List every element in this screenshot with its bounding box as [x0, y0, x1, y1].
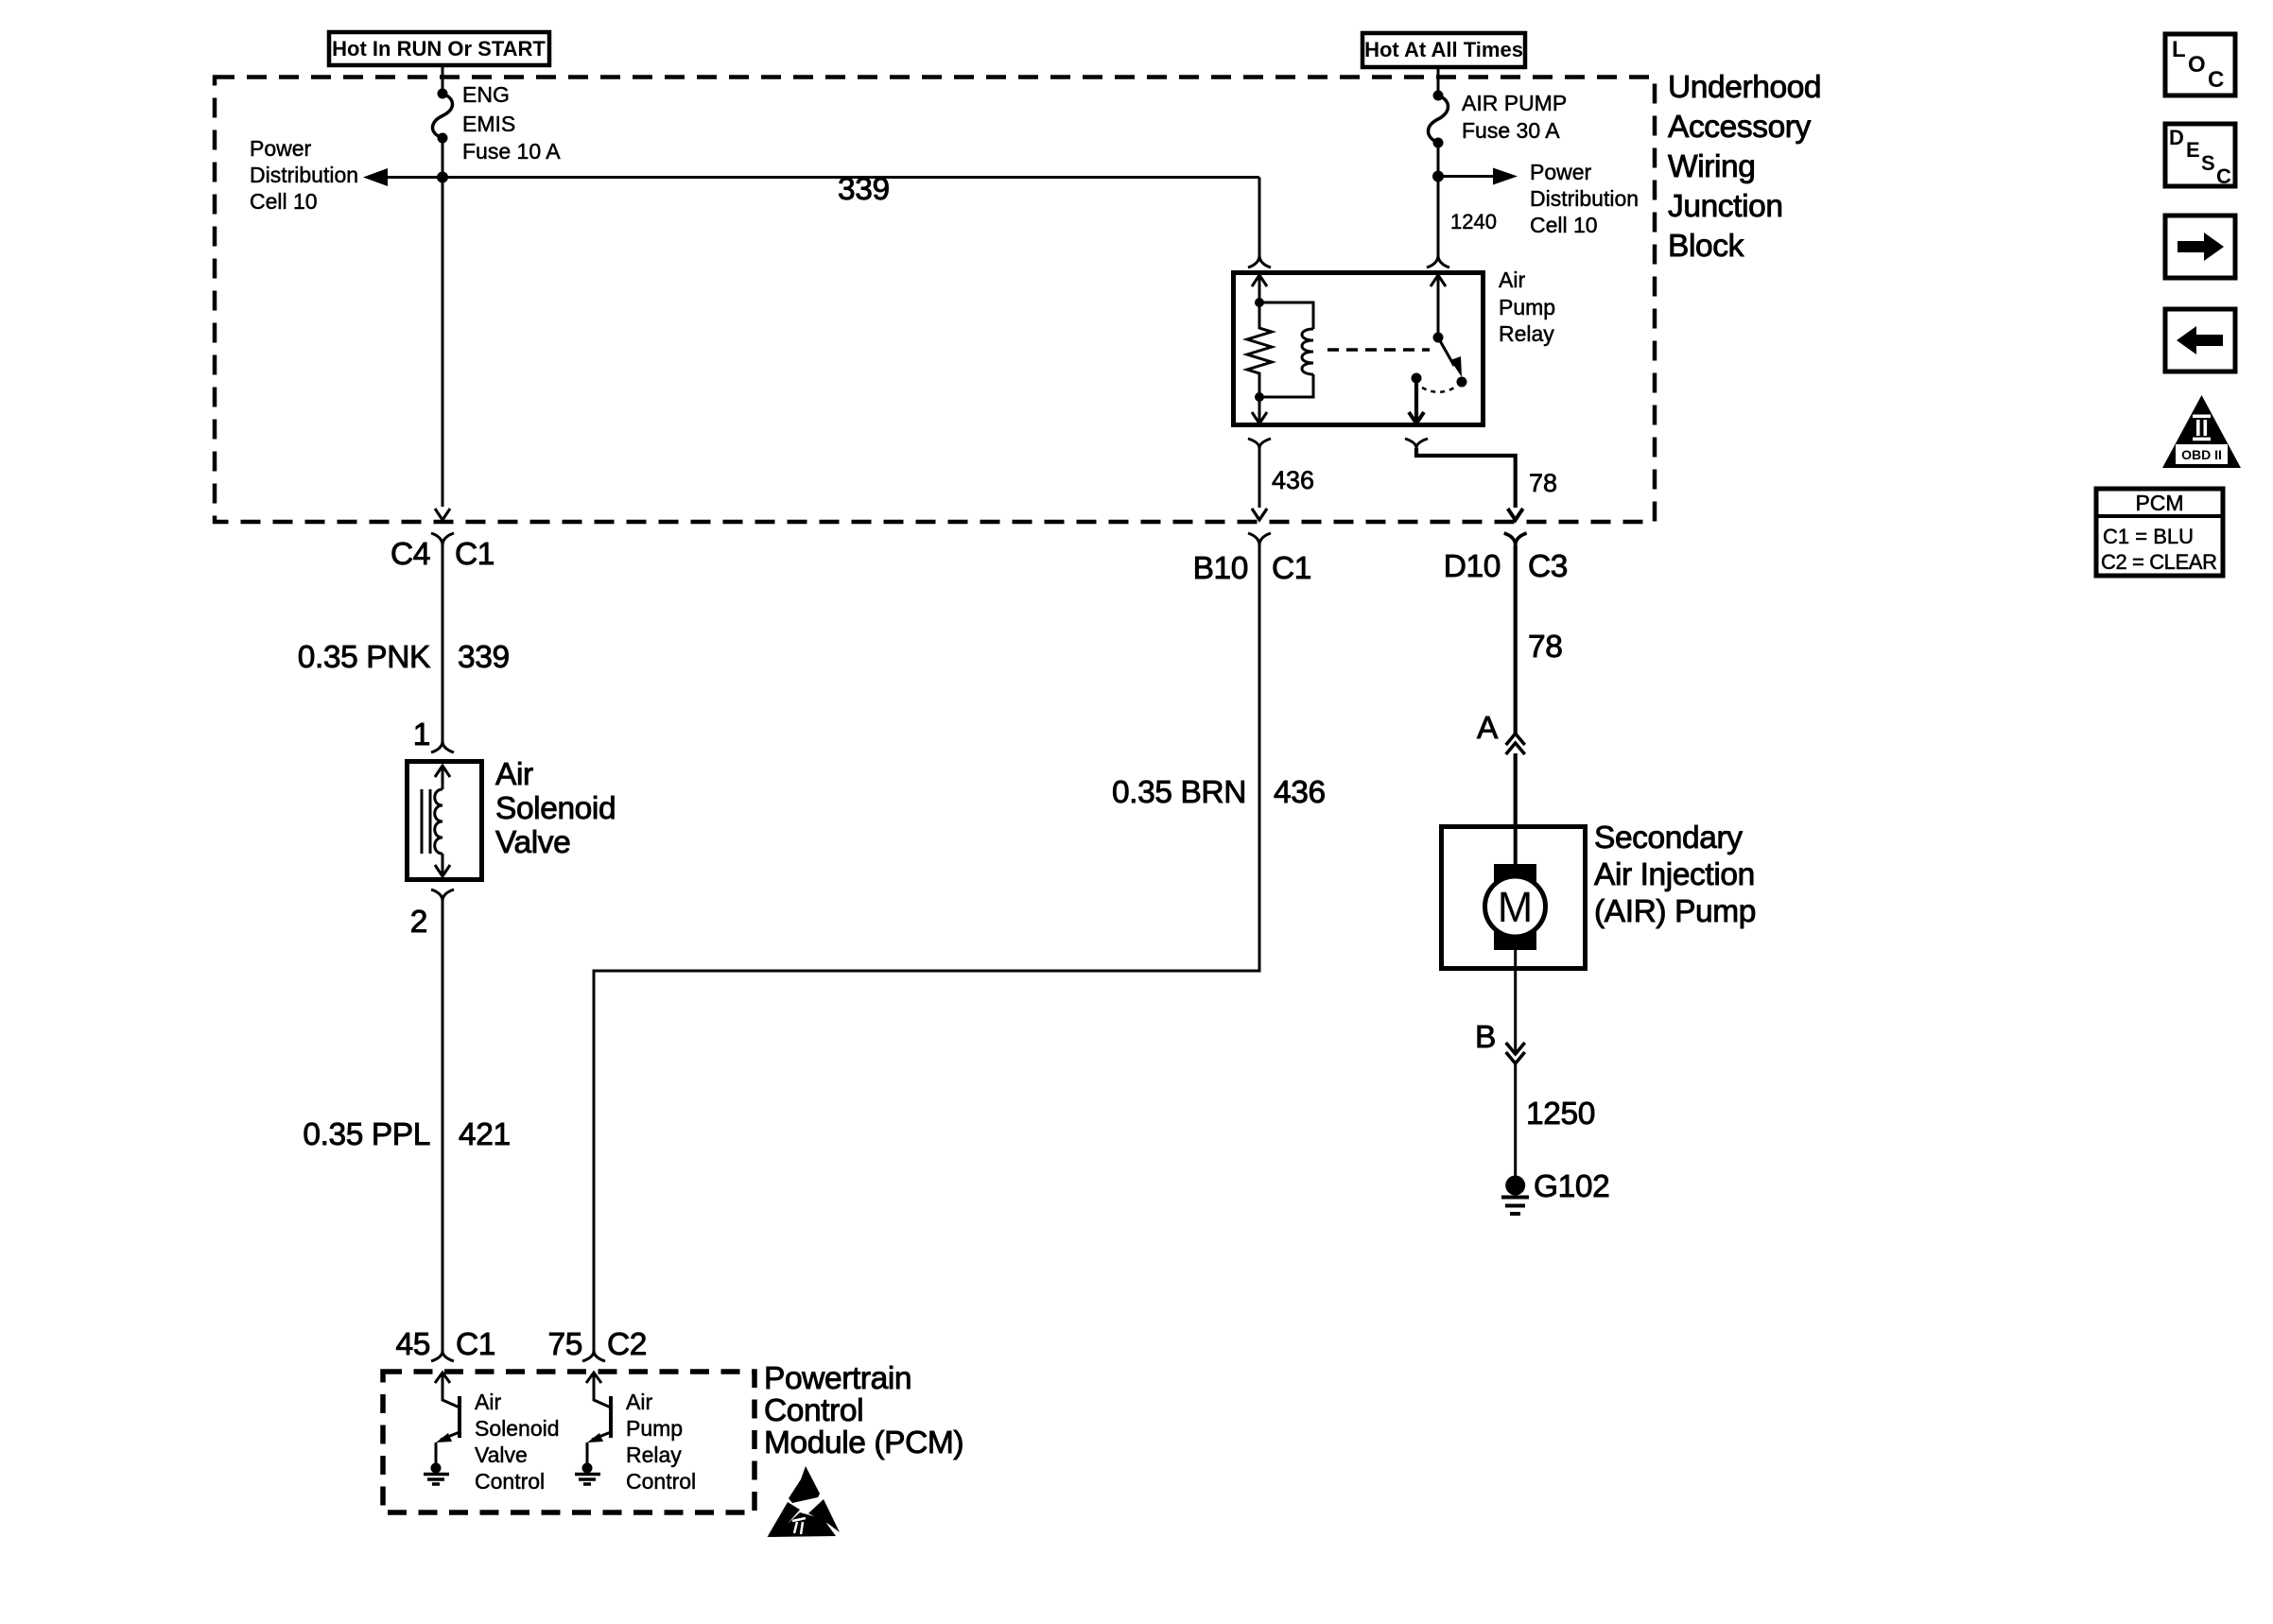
- svg-text:G102: G102: [1534, 1169, 1609, 1204]
- svg-text:Solenoid: Solenoid: [475, 1416, 560, 1441]
- label 0.35 PNK 339: [298, 640, 510, 675]
- svg-text:1250: 1250: [1526, 1097, 1595, 1132]
- arrow to Power Distribution Cell 10 (right): [1438, 168, 1518, 185]
- svg-text:Pump: Pump: [1499, 295, 1555, 320]
- svg-text:C1: C1: [456, 1327, 495, 1362]
- relay box Air Pump Relay: [1234, 273, 1484, 425]
- svg-text:Module (PCM): Module (PCM): [764, 1425, 963, 1460]
- svg-text:C: C: [2208, 67, 2224, 93]
- svg-text:Relay: Relay: [626, 1443, 682, 1467]
- icon arrow left box: [2165, 309, 2235, 371]
- ground at PCM driver 2: [575, 1463, 600, 1485]
- solenoid coil symbol: [422, 766, 450, 876]
- label Power Distribution Cell 10 (left): [250, 136, 358, 214]
- wire 436 from relay to junction block edge: [1248, 439, 1271, 520]
- svg-text:S: S: [2201, 151, 2215, 175]
- svg-text:Cell 10: Cell 10: [250, 189, 318, 214]
- svg-text:78: 78: [1529, 469, 1557, 497]
- svg-text:Air: Air: [475, 1390, 501, 1414]
- label Powertrain Control Module (PCM): [764, 1361, 963, 1460]
- driver Air Pump Relay Control (transistor-style output driver): [586, 1373, 611, 1465]
- connector B (inline): [1475, 1020, 1525, 1063]
- svg-text:Control: Control: [626, 1469, 696, 1494]
- svg-text:OBD II: OBD II: [2181, 447, 2222, 462]
- svg-text:C1: C1: [455, 537, 495, 572]
- connector C4 / C1: [390, 509, 495, 572]
- svg-text:B: B: [1475, 1020, 1496, 1055]
- fuse ENG EMIS Fuse 10 A: [433, 89, 453, 144]
- svg-text:Distribution: Distribution: [250, 163, 358, 187]
- svg-text:Underhood: Underhood: [1668, 70, 1821, 105]
- svg-text:Hot At All Times: Hot At All Times: [1364, 38, 1523, 61]
- solenoid valve box: [408, 762, 482, 880]
- svg-text:78: 78: [1528, 630, 1562, 665]
- label 1250: [1526, 1097, 1595, 1132]
- svg-text:C3: C3: [1528, 549, 1568, 584]
- svg-text:PCM: PCM: [2135, 491, 2183, 515]
- svg-text:Fuse 30 A: Fuse 30 A: [1462, 118, 1560, 143]
- relay dashed actuation link: [1327, 348, 1430, 352]
- icon LOC box: [2165, 34, 2235, 95]
- relay resistor: [1247, 302, 1272, 397]
- icon DESC box: [2165, 124, 2235, 188]
- label 339: [838, 172, 890, 207]
- svg-text:Air: Air: [495, 757, 533, 792]
- label Air Pump Relay Control: [626, 1390, 696, 1494]
- connector D10 / C3: [1444, 533, 1568, 584]
- junction node 1240: [1432, 171, 1444, 182]
- ground G102: [1501, 1176, 1529, 1215]
- PCM dashed box: [383, 1372, 755, 1512]
- svg-text:Fuse 10 A: Fuse 10 A: [462, 139, 561, 164]
- connector chevron into relay coil pin: [1248, 255, 1271, 268]
- wire 339 horizontal: [442, 176, 1259, 179]
- connector B10 / C1: [1193, 509, 1311, 586]
- label Air Solenoid Valve: [495, 757, 616, 860]
- label 0.35 PPL 421: [303, 1117, 510, 1152]
- relay switch: [1409, 275, 1467, 423]
- svg-text:1240: 1240: [1450, 210, 1497, 233]
- svg-text:O: O: [2188, 52, 2206, 78]
- svg-text:75: 75: [548, 1327, 582, 1362]
- wire 339 vertical down to relay coil pin: [1258, 178, 1261, 256]
- svg-text:Air: Air: [626, 1390, 652, 1414]
- svg-text:A: A: [1477, 711, 1499, 746]
- svg-text:Control: Control: [475, 1469, 545, 1494]
- label Secondary Air Injection (AIR) Pump: [1594, 821, 1756, 929]
- ESD warning symbol: [767, 1466, 840, 1537]
- svg-text:B10: B10: [1193, 551, 1248, 586]
- svg-text:Wiring: Wiring: [1668, 149, 1756, 184]
- connector chevron into relay switch pin: [1427, 255, 1449, 268]
- svg-text:Accessory: Accessory: [1668, 110, 1812, 145]
- icon OBD II triangle: [2162, 395, 2241, 468]
- svg-text:Solenoid: Solenoid: [495, 791, 616, 826]
- relay coil pin bottom arrow (down): [1252, 397, 1267, 423]
- svg-text:0.35 PNK: 0.35 PNK: [298, 640, 430, 675]
- svg-text:Distribution: Distribution: [1530, 186, 1639, 211]
- icon arrow right box: [2165, 216, 2235, 278]
- svg-text:AIR PUMP: AIR PUMP: [1462, 91, 1567, 115]
- wire from Hot In RUN header into ENG EMIS fuse: [442, 65, 444, 93]
- pin 1 connector of solenoid valve: [413, 717, 454, 752]
- svg-text:421: 421: [459, 1117, 511, 1152]
- header box Hot In RUN Or START: [329, 32, 549, 65]
- arrow to Power Distribution Cell 10 (left): [363, 168, 442, 186]
- svg-text:Block: Block: [1668, 229, 1744, 264]
- svg-text:Power: Power: [1530, 160, 1592, 184]
- wire 421 down to PCM pin 45: [442, 901, 444, 1351]
- svg-text:Air: Air: [1499, 268, 1525, 292]
- wire 78 down to AIR pump: [1514, 545, 1518, 824]
- svg-text:339: 339: [458, 640, 510, 675]
- svg-text:Valve: Valve: [495, 825, 570, 860]
- label 78: [1528, 630, 1562, 665]
- connector 45 / C1 at PCM: [396, 1327, 496, 1362]
- svg-text:0.35 PPL: 0.35 PPL: [303, 1117, 430, 1152]
- svg-text:Cell 10: Cell 10: [1530, 213, 1598, 237]
- label 78 inside junction block: [1529, 469, 1557, 497]
- label 436 inside junction block: [1272, 466, 1314, 494]
- svg-text:Secondary: Secondary: [1594, 821, 1743, 855]
- header box Hot At All Times: [1362, 33, 1525, 67]
- connector 75 / C2 at PCM: [548, 1327, 648, 1362]
- label Air Pump Relay: [1499, 268, 1555, 346]
- svg-text:436: 436: [1272, 466, 1314, 494]
- svg-text:EMIS: EMIS: [462, 112, 515, 136]
- relay coil pin arrow (up) and upper node: [1252, 275, 1267, 312]
- svg-text:(AIR) Pump: (AIR) Pump: [1594, 894, 1756, 929]
- label Power Distribution Cell 10 (right): [1530, 160, 1639, 237]
- label Underhood Accessory Wiring Junction Block: [1668, 70, 1821, 264]
- svg-text:Power: Power: [250, 136, 312, 161]
- relay coil branch: [1255, 302, 1313, 402]
- label 1240: [1450, 210, 1497, 233]
- svg-text:Pump: Pump: [626, 1416, 683, 1441]
- svg-text:Hot In RUN Or START: Hot In RUN Or START: [332, 37, 546, 60]
- svg-text:Powertrain: Powertrain: [764, 1361, 911, 1396]
- svg-text:436: 436: [1274, 775, 1326, 810]
- svg-text:C1: C1: [1272, 551, 1311, 586]
- svg-text:Control: Control: [764, 1393, 863, 1428]
- label 0.35 BRN 436: [1112, 775, 1326, 810]
- svg-text:1: 1: [413, 717, 430, 752]
- wire 1250 to ground: [1514, 969, 1517, 1176]
- svg-text:C2 = CLEAR: C2 = CLEAR: [2101, 550, 2217, 574]
- svg-text:2: 2: [410, 905, 427, 940]
- wire 339 PNK below junction block: [442, 545, 444, 741]
- pump box Secondary Air Injection (AIR) Pump: [1442, 827, 1586, 969]
- driver Air Solenoid Valve Control (transistor-style output driver): [435, 1373, 460, 1465]
- svg-text:Air Injection: Air Injection: [1594, 857, 1755, 892]
- connector A (inline): [1477, 711, 1525, 754]
- svg-text:C: C: [2216, 164, 2231, 188]
- wire fuse output down through junction node: [442, 138, 444, 507]
- fuse AIR PUMP Fuse 30 A: [1429, 91, 1449, 148]
- svg-text:ENG: ENG: [462, 82, 510, 107]
- junction block dashed box (Underhood Accessory Wiring Junction Block): [215, 78, 1655, 523]
- svg-text:339: 339: [838, 172, 890, 207]
- svg-text:D: D: [2169, 126, 2184, 149]
- wire from Hot At All Times header into AIR PUMP fuse: [1437, 67, 1440, 95]
- pin 2 connector of solenoid valve: [410, 890, 454, 940]
- label AIR PUMP Fuse 30 A: [1462, 91, 1567, 143]
- svg-text:0.35 BRN: 0.35 BRN: [1112, 775, 1246, 810]
- label G102: [1534, 1169, 1609, 1204]
- svg-text:C2: C2: [607, 1327, 647, 1362]
- svg-text:M: M: [1498, 883, 1534, 931]
- PCM connector legend table: [2096, 489, 2223, 576]
- wire 78 from relay to junction block edge: [1405, 439, 1523, 520]
- junction node at left fuse output: [437, 172, 448, 183]
- label Air Solenoid Valve Control: [475, 1390, 560, 1494]
- svg-text:C1 = BLU: C1 = BLU: [2103, 525, 2194, 548]
- svg-text:D10: D10: [1444, 549, 1501, 584]
- ground at PCM driver 1: [424, 1463, 449, 1485]
- svg-text:C4: C4: [390, 537, 430, 572]
- svg-text:45: 45: [396, 1327, 430, 1362]
- wire 436 BRN down and over to PCM pin 75: [594, 545, 1259, 1351]
- svg-text:Valve: Valve: [475, 1443, 528, 1467]
- svg-text:L: L: [2172, 37, 2186, 62]
- svg-text:Relay: Relay: [1499, 321, 1554, 346]
- motor symbol M: [1485, 826, 1546, 969]
- svg-text:E: E: [2186, 138, 2200, 162]
- label ENG EMIS Fuse 10 A: [462, 82, 561, 164]
- svg-text:Junction: Junction: [1668, 189, 1783, 224]
- wire AIR PUMP fuse output down to relay switch pin: [1437, 143, 1440, 255]
